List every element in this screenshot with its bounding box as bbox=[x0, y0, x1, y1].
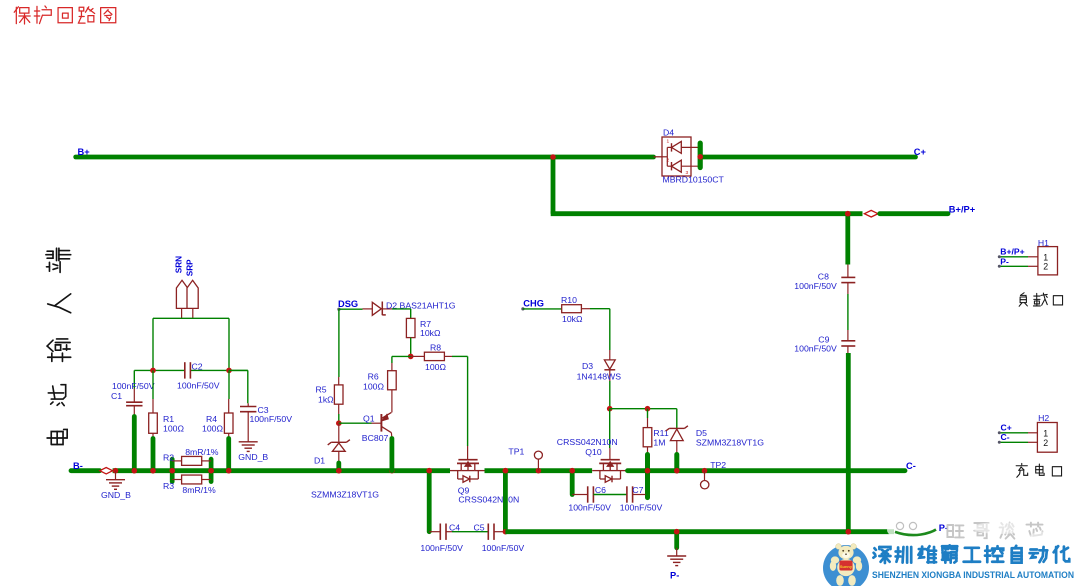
label D3 value 1N4148WS bbox=[577, 372, 622, 382]
wire B+/P+ down to C8 bbox=[845, 211, 851, 277]
label C4 value 100nF/50V bbox=[420, 543, 463, 553]
test point TP2 bbox=[701, 471, 709, 489]
svg-text:2: 2 bbox=[667, 157, 670, 163]
svg-text:10kΩ: 10kΩ bbox=[420, 328, 441, 338]
label R2 bbox=[163, 453, 174, 463]
svg-text:SZMM3Z18VT1G: SZMM3Z18VT1G bbox=[696, 438, 764, 448]
connector H1 (load port) bbox=[998, 247, 1058, 275]
wire C3 to ground bbox=[247, 412, 249, 441]
label C- at H2 bbox=[1001, 432, 1010, 442]
label DSG bbox=[338, 299, 358, 309]
label R3 bbox=[163, 481, 174, 491]
label H1 bbox=[1038, 238, 1049, 248]
capacitor C6 bbox=[572, 486, 593, 502]
label C2 value 100nF/50V bbox=[177, 380, 220, 390]
wire R4 to rail bbox=[226, 433, 232, 473]
svg-text:TP1: TP1 bbox=[508, 446, 524, 456]
label C+ at H2 bbox=[1001, 423, 1012, 433]
svg-text:CHG: CHG bbox=[523, 299, 544, 309]
capacitor C4 bbox=[429, 524, 452, 540]
svg-text:R4: R4 bbox=[206, 414, 217, 424]
wire CHG to R10 bbox=[523, 308, 562, 310]
svg-text:C5: C5 bbox=[474, 522, 485, 532]
label 负载口 (load port) bbox=[1019, 293, 1062, 307]
label C3 bbox=[258, 405, 269, 415]
wire rail Q10 to C- bbox=[628, 468, 906, 474]
svg-text:100nF/50V: 100nF/50V bbox=[420, 543, 463, 553]
pin 2 H2 bbox=[1043, 438, 1048, 448]
connector pin SRN (pentagon) bbox=[176, 280, 187, 308]
svg-text:100Ω: 100Ω bbox=[363, 382, 384, 392]
label H2 bbox=[1038, 413, 1049, 423]
wire node row right bbox=[610, 406, 677, 412]
pin 1 H1 bbox=[1043, 253, 1048, 263]
svg-text:CRSS042N10N: CRSS042N10N bbox=[557, 437, 618, 447]
ground GND_B left bbox=[106, 480, 125, 490]
resistor R11 bbox=[643, 428, 652, 447]
svg-text:100nF/50V: 100nF/50V bbox=[620, 502, 663, 512]
svg-text:R11: R11 bbox=[653, 428, 668, 438]
svg-text:H1: H1 bbox=[1038, 238, 1049, 248]
wire C2 row corner to C3 bbox=[229, 370, 248, 406]
label C2 bbox=[192, 361, 203, 371]
label CHG bbox=[523, 299, 544, 309]
connector H2 (charge port) bbox=[998, 423, 1057, 453]
svg-text:P-: P- bbox=[1000, 257, 1009, 267]
label D3 bbox=[582, 361, 593, 371]
label D1 bbox=[314, 456, 325, 466]
labels SRN SRP (rotated) bbox=[175, 256, 195, 276]
wire vertical B+ to B+/P+ row bbox=[550, 154, 556, 214]
transistor Q1 BC807 (PNP) bbox=[381, 412, 391, 432]
svg-text:C2: C2 bbox=[192, 361, 203, 371]
logo text 深圳雄霸工控自动化 bbox=[873, 545, 1069, 563]
label C9 bbox=[818, 335, 829, 345]
label C8 value 100nF/50V bbox=[794, 281, 837, 291]
svg-text:1: 1 bbox=[667, 139, 670, 145]
svg-text:100Ω: 100Ω bbox=[163, 424, 184, 434]
wire B- rail to Q9 bbox=[113, 468, 450, 474]
capacitor C5 bbox=[488, 524, 505, 540]
label C6 bbox=[595, 485, 606, 495]
capacitor C9 bbox=[841, 341, 855, 346]
label D1 value SZMM3Z18VT1G bbox=[311, 489, 379, 499]
svg-text:P-: P- bbox=[670, 570, 679, 580]
svg-text:R6: R6 bbox=[368, 371, 379, 381]
wire GND_B stem bbox=[115, 471, 117, 480]
svg-text:C-: C- bbox=[1001, 432, 1010, 442]
svg-text:C4: C4 bbox=[449, 522, 460, 532]
svg-text:1N4148WS: 1N4148WS bbox=[577, 372, 622, 382]
wire D3 to node row bbox=[609, 381, 611, 409]
label R6 bbox=[368, 371, 379, 381]
wire B+ rail bbox=[76, 155, 654, 160]
svg-text:R2: R2 bbox=[163, 453, 174, 463]
label R3 value 8mR/1% bbox=[182, 485, 216, 495]
svg-text:C1: C1 bbox=[111, 391, 122, 401]
wire R8 to Q9 gate bbox=[452, 356, 468, 459]
label R1 bbox=[163, 414, 174, 424]
label Q9 bbox=[458, 485, 470, 495]
wire C1 to rail bbox=[132, 406, 138, 473]
wire C9 down to P- rail bbox=[846, 346, 852, 535]
label C7 value 100nF/50V bbox=[620, 502, 663, 512]
svg-text:8mR/1%: 8mR/1% bbox=[182, 485, 216, 495]
label D5 value SZMM3Z18VT1G bbox=[696, 438, 764, 448]
wire C2 row to R1 bbox=[152, 370, 154, 413]
label R4 bbox=[206, 414, 217, 424]
svg-text:H2: H2 bbox=[1038, 413, 1049, 423]
svg-text:100nF/50V: 100nF/50V bbox=[250, 414, 293, 424]
svg-text:100nF/50V: 100nF/50V bbox=[482, 543, 525, 553]
label R5 value 1kΩ bbox=[318, 395, 334, 405]
wire P- rail bbox=[505, 529, 894, 535]
svg-text:R1: R1 bbox=[163, 414, 174, 424]
label P- right end bbox=[939, 523, 948, 533]
capacitor C8 bbox=[841, 277, 855, 282]
node DSG port dot bbox=[337, 308, 340, 311]
svg-text:C8: C8 bbox=[818, 271, 829, 281]
svg-text:C7: C7 bbox=[632, 485, 643, 495]
svg-text:100nF/50V: 100nF/50V bbox=[177, 380, 220, 390]
svg-text:D5: D5 bbox=[696, 428, 707, 438]
label C1 bbox=[111, 391, 122, 401]
label R1 value 100Ω bbox=[163, 424, 184, 434]
label R2 value 8mR/1% bbox=[185, 447, 219, 457]
svg-text:B+/P+: B+/P+ bbox=[1000, 246, 1024, 256]
svg-text:Q10: Q10 bbox=[585, 447, 602, 457]
wire R6 to Q1 emitter bbox=[391, 390, 393, 413]
label C9 value 100nF/50V bbox=[794, 343, 837, 353]
wire shunt right bar bbox=[208, 459, 214, 482]
label P- at H1 bbox=[1000, 257, 1009, 267]
wire rail down to C4 bbox=[426, 468, 432, 532]
wire C2 row to C1 bbox=[133, 370, 135, 401]
wire C6 to C7 bbox=[593, 494, 627, 496]
wire R10 to D3 bbox=[590, 309, 610, 360]
wire SRN/SRP horizontal bbox=[153, 317, 229, 319]
wire R11 bar through rail to C7 bbox=[645, 447, 651, 498]
label R8 value 100Ω bbox=[425, 362, 446, 372]
label Q1 bbox=[363, 414, 375, 424]
svg-text:R8: R8 bbox=[430, 343, 441, 353]
wire B- rail start bbox=[71, 468, 100, 473]
label C7 bbox=[632, 485, 643, 495]
svg-text:10kΩ: 10kΩ bbox=[562, 314, 583, 324]
ground GND_B under C3 bbox=[239, 442, 258, 452]
capacitor C7 bbox=[627, 486, 646, 502]
logo text SHENZHEN XIONGBA INDUSTRIAL AUTOMATION bbox=[872, 570, 1074, 580]
label C1 value 100nF/50V bbox=[112, 381, 155, 391]
label MBRD10150CT bbox=[663, 175, 725, 185]
svg-text:GND_B: GND_B bbox=[101, 490, 131, 500]
resistor R1 bbox=[149, 413, 158, 433]
net tie diamond on B- bbox=[100, 468, 113, 474]
svg-text:100Ω: 100Ω bbox=[202, 424, 223, 434]
svg-text:BC807: BC807 bbox=[362, 433, 389, 443]
wire node to Q1 base bbox=[339, 422, 382, 424]
label R11 value 1M bbox=[653, 438, 665, 448]
wire right down to C2 row bbox=[228, 318, 230, 370]
svg-text:100nF/50V: 100nF/50V bbox=[568, 502, 611, 512]
label D4 bbox=[663, 128, 674, 138]
svg-text:CRSS042N10N: CRSS042N10N bbox=[458, 494, 519, 504]
wire Q10 gate bbox=[609, 409, 611, 460]
wire C4 to C5 bbox=[452, 531, 488, 533]
zener diode D1 SZMM3Z18VT1G bbox=[328, 423, 350, 473]
resistor R2 8mR bbox=[172, 456, 211, 465]
label Q10 bbox=[585, 447, 602, 457]
label B+ bbox=[78, 147, 91, 157]
zener diode D5 SZMM3Z18VT1G bbox=[666, 409, 688, 474]
label C5 bbox=[474, 522, 485, 532]
svg-text:C6: C6 bbox=[595, 485, 606, 495]
wire node to R11 bbox=[647, 409, 649, 428]
label C- bbox=[906, 461, 916, 471]
label Q1 value BC807 bbox=[362, 433, 389, 443]
svg-text:C+: C+ bbox=[1001, 423, 1012, 433]
logo Xiongba blue circle with bear bbox=[823, 544, 869, 586]
resistor R5 bbox=[334, 385, 343, 404]
label B+/P+ bbox=[949, 204, 976, 214]
wire Q1 collector to rail bbox=[390, 433, 393, 471]
title 保护回路图 (Protection Circuit Diagram) bbox=[14, 6, 116, 24]
svg-text:C-: C- bbox=[906, 461, 916, 471]
label R5 bbox=[316, 384, 327, 394]
label D5 bbox=[696, 428, 707, 438]
svg-text:Q1: Q1 bbox=[363, 414, 375, 424]
label R7 bbox=[420, 319, 431, 329]
pin 1 H2 bbox=[1043, 429, 1048, 439]
capacitor C2 bbox=[185, 362, 191, 378]
svg-text:SRP: SRP bbox=[186, 259, 195, 276]
wire C+ rail right of D4 bbox=[702, 155, 915, 160]
svg-text:DSG: DSG bbox=[338, 299, 358, 309]
label GND_B under C3 bbox=[238, 452, 268, 462]
label R10 value 10kΩ bbox=[562, 314, 583, 324]
label R4 value 100Ω bbox=[202, 424, 223, 434]
svg-text:B-: B- bbox=[73, 461, 83, 471]
svg-text:B+/P+: B+/P+ bbox=[949, 204, 976, 214]
wire rail Q9 to Q10 bbox=[485, 468, 593, 474]
wire DSG to R5 bbox=[338, 309, 340, 385]
wire left down to C2 row bbox=[152, 318, 154, 370]
label R7 value 10kΩ bbox=[420, 328, 441, 338]
label D2 BAS21AHT1G bbox=[386, 300, 456, 310]
node D3/Q10 junction bbox=[607, 406, 613, 412]
wire rail down to C6 bbox=[569, 468, 575, 495]
wire SRN stub bbox=[181, 308, 183, 318]
svg-text:SZMM3Z18VT1G: SZMM3Z18VT1G bbox=[311, 489, 379, 499]
svg-text:8mR/1%: 8mR/1% bbox=[185, 447, 219, 457]
resistor R10 bbox=[562, 305, 590, 313]
node CHG port dot bbox=[521, 307, 524, 310]
wire D2 to R7 bbox=[392, 309, 411, 319]
resistor R3 8mR bbox=[172, 475, 211, 484]
svg-text:D1: D1 bbox=[314, 456, 325, 466]
resistor R4 bbox=[224, 413, 233, 433]
wire DSG to D2 bbox=[339, 308, 372, 310]
svg-text:1kΩ: 1kΩ bbox=[318, 395, 334, 405]
svg-text:MBRD10150CT: MBRD10150CT bbox=[663, 175, 725, 185]
wire B+/P+ to label bbox=[880, 211, 948, 216]
wire C8 to C9 bbox=[847, 283, 849, 341]
wire shunt left bar bbox=[169, 459, 175, 482]
label TP1 bbox=[508, 446, 524, 456]
svg-text:GND_B: GND_B bbox=[238, 452, 268, 462]
svg-text:2: 2 bbox=[1043, 438, 1048, 448]
resistor R6 bbox=[388, 371, 397, 390]
label C+ bbox=[914, 147, 927, 157]
svg-text:D4: D4 bbox=[663, 128, 674, 138]
svg-text:C+: C+ bbox=[914, 147, 927, 157]
resistor R8 bbox=[411, 352, 452, 360]
label GND_B left bbox=[101, 490, 131, 500]
diode D2 BAS21AHT1G bbox=[372, 302, 392, 316]
svg-text:SHENZHEN XIONGBA INDUSTRIAL AU: SHENZHEN XIONGBA INDUSTRIAL AUTOMATION bbox=[872, 570, 1074, 580]
wire P- ground stub bbox=[674, 529, 680, 556]
label R10 bbox=[561, 295, 577, 305]
label TP2 bbox=[710, 460, 726, 470]
wire P- swoosh end bbox=[895, 530, 936, 536]
svg-text:R3: R3 bbox=[163, 481, 174, 491]
svg-text:100Ω: 100Ω bbox=[425, 362, 446, 372]
capacitor C1 bbox=[126, 402, 142, 406]
vertical text 电池输入端 (battery input terminal) bbox=[46, 248, 71, 444]
test point TP1 bbox=[534, 451, 542, 471]
wire B+/P+ row bbox=[551, 211, 863, 217]
pin 2 H1 bbox=[1043, 261, 1048, 271]
label R6 value 100Ω bbox=[363, 382, 384, 392]
resistor R7 bbox=[406, 318, 415, 337]
label Q9 value CRSS042N10N bbox=[458, 494, 519, 504]
wire C2 row to R4 bbox=[228, 370, 230, 413]
diode D3 1N4148WS bbox=[604, 360, 615, 381]
svg-text:D3: D3 bbox=[582, 361, 593, 371]
wire R7 to node bbox=[410, 338, 412, 357]
label P- bottom ground bbox=[670, 570, 679, 580]
svg-text:B+: B+ bbox=[78, 147, 91, 157]
label B- bbox=[73, 461, 83, 471]
capacitor C3 bbox=[240, 407, 256, 412]
connector pin SRP (pentagon) bbox=[187, 280, 198, 308]
wire R5 to node bbox=[338, 404, 340, 423]
svg-text:TP2: TP2 bbox=[710, 460, 726, 470]
ground P- bottom bbox=[667, 556, 686, 566]
wire drain down to P- row bbox=[503, 468, 509, 535]
label C3 value 100nF/50V bbox=[250, 414, 293, 424]
label R8 bbox=[430, 343, 441, 353]
svg-text:100nF/50V: 100nF/50V bbox=[794, 281, 837, 291]
svg-text:Sunny: Sunny bbox=[840, 564, 853, 569]
label 充电口 (charge port) bbox=[1016, 463, 1061, 477]
label C4 bbox=[449, 522, 460, 532]
label C5 value 100nF/50V bbox=[482, 543, 525, 553]
svg-text:1M: 1M bbox=[653, 438, 665, 448]
transistor Q10 CRSS042N10N (MOSFET) bbox=[592, 460, 627, 483]
watermark text 旺哥谈芯 bbox=[947, 522, 1074, 541]
svg-text:100nF/50V: 100nF/50V bbox=[794, 343, 837, 353]
svg-text:2: 2 bbox=[1043, 261, 1048, 271]
net tie diamond on B+/P+ bbox=[864, 210, 878, 217]
diode D4 dual schottky MBRD10150CT bbox=[654, 137, 704, 176]
label C8 bbox=[818, 271, 829, 281]
node R5/D1/Q1 junction bbox=[336, 420, 342, 426]
watermark cloud over P- rail bbox=[887, 522, 938, 541]
wire R1 to rail bbox=[150, 433, 156, 473]
label R11 bbox=[653, 428, 668, 438]
wire node to R6 bbox=[392, 356, 411, 370]
svg-text:R5: R5 bbox=[316, 384, 327, 394]
label Q10 value CRSS042N10N bbox=[557, 437, 618, 447]
svg-text:100nF/50V: 100nF/50V bbox=[112, 381, 155, 391]
label B+/P+ at H1 bbox=[1000, 246, 1024, 256]
svg-text:R10: R10 bbox=[561, 295, 577, 305]
wire C2 row bbox=[134, 368, 248, 374]
wire SRP stub bbox=[192, 308, 194, 318]
svg-text:SRN: SRN bbox=[175, 256, 184, 273]
node R7/R8/R6 junction bbox=[408, 354, 414, 360]
label C6 value 100nF/50V bbox=[568, 502, 611, 512]
transistor Q9 CRSS042N10N (MOSFET) bbox=[450, 460, 485, 483]
